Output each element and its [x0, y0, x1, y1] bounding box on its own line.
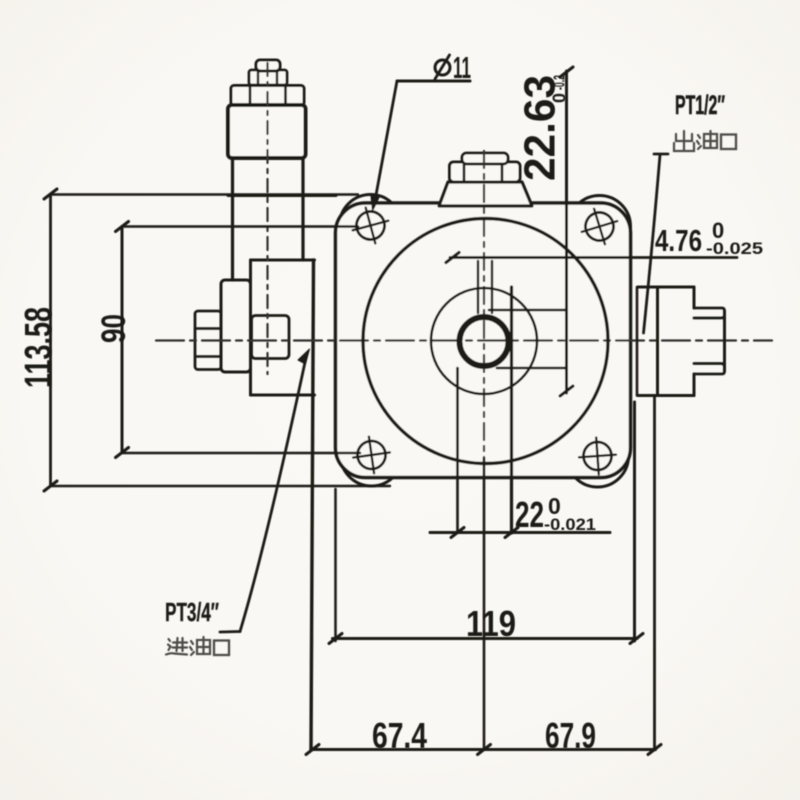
svg-text:119: 119	[466, 603, 516, 644]
svg-text:11: 11	[453, 50, 471, 85]
svg-text:67.4: 67.4	[372, 715, 427, 756]
svg-text:0: 0	[550, 93, 570, 103]
svg-text:PT3/4″: PT3/4″	[165, 597, 219, 627]
svg-text:4.76: 4.76	[655, 223, 702, 258]
svg-text:67.9: 67.9	[545, 715, 596, 756]
svg-text:-0.025: -0.025	[706, 239, 763, 258]
svg-text:22: 22	[515, 494, 544, 535]
svg-text:113.58: 113.58	[18, 307, 60, 388]
svg-text:90: 90	[95, 314, 133, 343]
svg-text:PT1/2″: PT1/2″	[675, 90, 725, 120]
svg-text:-0.021: -0.021	[544, 515, 596, 534]
svg-text:-0.2: -0.2	[552, 75, 569, 90]
